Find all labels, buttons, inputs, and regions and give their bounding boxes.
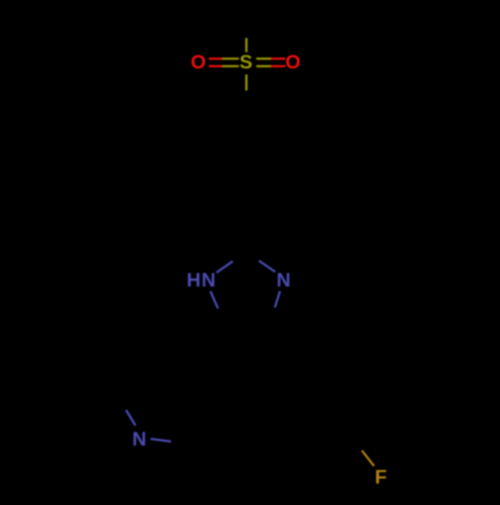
svg-text:N: N	[277, 270, 291, 292]
svg-text:N: N	[201, 270, 215, 292]
svg-text:S: S	[239, 52, 252, 74]
svg-text:O: O	[285, 52, 300, 74]
svg-text:N: N	[132, 429, 146, 451]
svg-text:F: F	[375, 467, 387, 489]
svg-text:H: H	[187, 270, 201, 292]
svg-text:O: O	[191, 52, 206, 74]
